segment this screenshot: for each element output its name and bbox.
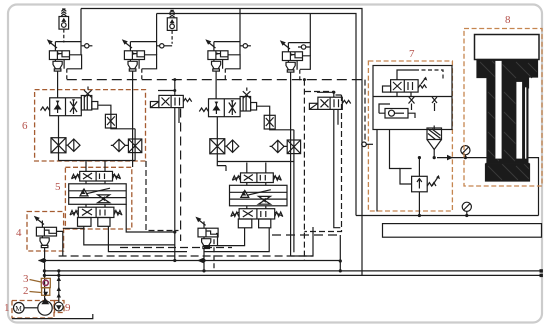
pilot drain dashed below valve1 <box>180 109 182 242</box>
compensator <box>385 109 408 119</box>
group5 port right L <box>108 229 187 252</box>
dashed drop to group7 <box>364 80 366 142</box>
aux pump line up <box>58 271 60 302</box>
mid valve right port to ladder <box>216 234 218 246</box>
svg-text:6: 6 <box>22 120 28 132</box>
mid pilot valve <box>195 217 218 249</box>
riser asm4 <box>309 14 311 56</box>
aux pump 9 dashed box <box>55 301 65 313</box>
return line to tank right <box>356 215 539 217</box>
white slots <box>495 61 502 160</box>
top bus 2 <box>157 14 356 216</box>
group4 right loop wire <box>57 228 84 255</box>
asm3 drop <box>215 71 217 99</box>
motor M <box>13 303 24 314</box>
top pilot valve 2 <box>167 10 177 44</box>
svg-text:4: 4 <box>16 227 22 239</box>
bottom bus upper <box>44 270 541 272</box>
group7 solid box <box>373 66 452 130</box>
group7 left port <box>366 143 373 145</box>
component 3 <box>41 278 50 287</box>
group7 drain verticals <box>377 130 400 212</box>
manifold group 6 <box>41 87 142 161</box>
drain line y261 with arrows <box>39 260 341 262</box>
bus terminators <box>540 269 543 272</box>
riser asm1 <box>80 9 82 55</box>
valve2 riser dashes <box>305 91 334 93</box>
svg-text:8: 8 <box>505 14 511 26</box>
dashed drain L left <box>146 161 179 231</box>
pilot relief asm2 <box>122 39 145 79</box>
pilot relief asm3 <box>205 39 228 79</box>
twin X-box drop <box>293 162 295 253</box>
arrow on cylinder line <box>447 155 453 161</box>
group4 pilot valve <box>34 216 57 248</box>
pilot dashed bus <box>67 79 365 81</box>
twin stack ports <box>204 231 245 246</box>
asm1 loop and port <box>55 42 92 69</box>
valve1 riser to pilot bus <box>174 80 176 91</box>
group7 3/2 valve <box>383 77 428 93</box>
asm1 drop to manifold <box>57 71 59 98</box>
4/2 valve 2 <box>309 91 350 125</box>
asm2 test port <box>157 45 160 47</box>
svg-text:9: 9 <box>65 302 71 314</box>
cylinder rod side line <box>437 158 539 216</box>
cylinder black body <box>477 60 538 182</box>
pilot relief asm1 <box>47 39 70 79</box>
group7 inner wires <box>373 70 452 97</box>
component 2 <box>42 288 50 296</box>
X glyph a <box>409 97 415 111</box>
cylinder cap <box>475 35 540 60</box>
group 5 dashed box <box>65 167 131 229</box>
base line under pump <box>12 314 93 319</box>
asm2 drop <box>132 71 134 167</box>
gauge 1 <box>461 146 470 155</box>
stack twin <box>230 163 288 231</box>
group 7 dashed box <box>368 61 452 211</box>
svg-text:7: 7 <box>409 48 415 60</box>
mid pilot valve drop <box>203 249 205 271</box>
dashed bottom long <box>59 255 313 257</box>
group4 line down to pump <box>44 247 46 301</box>
svg-text:1: 1 <box>4 302 10 314</box>
svg-text:2: 2 <box>23 285 29 297</box>
svg-text:3: 3 <box>23 273 29 285</box>
svg-text:5: 5 <box>55 181 61 193</box>
group 4 dashed box <box>27 212 64 252</box>
valve1 ports down <box>174 108 176 261</box>
group 6 dashed box <box>35 90 146 161</box>
asm2 loop <box>130 42 156 69</box>
relief valve group7 <box>400 156 440 217</box>
dashed mid-left pair <box>120 247 232 249</box>
cylinder outline accents <box>477 60 538 182</box>
pump group dashed box <box>12 301 54 319</box>
mid valve pilot drain dashes <box>213 239 215 269</box>
shaft <box>24 307 38 309</box>
asm3 loop and port <box>214 42 251 69</box>
junction dots bottom <box>43 269 46 272</box>
filter <box>427 126 442 150</box>
stack group5 <box>69 161 127 229</box>
gauge 2 <box>462 202 471 211</box>
bottom bus lower <box>44 274 541 276</box>
4/2 valve 1 <box>150 89 191 123</box>
aux pump 9 <box>54 302 63 311</box>
filter to line <box>433 150 435 158</box>
riser asm3 <box>239 9 241 55</box>
pump circle <box>38 301 52 315</box>
group5 mid-block right port wire <box>126 204 175 232</box>
group 8 dashed box <box>464 29 542 187</box>
asm4 drop long <box>291 72 313 256</box>
tank box <box>383 224 542 238</box>
asm4 test port <box>301 45 305 49</box>
group5 port left down <box>84 229 175 245</box>
pilot relief asm4 <box>280 40 303 80</box>
dashed drop asm4 long <box>303 80 305 261</box>
dashed vertical right of stacks <box>304 95 341 232</box>
manifold twin <box>199 88 300 162</box>
twin check drops <box>217 162 226 172</box>
svg-text:M: M <box>15 304 22 313</box>
riser asm2 <box>156 14 158 55</box>
top pilot valve 1 <box>59 9 69 43</box>
valve2 port down <box>334 109 341 227</box>
asm4 loop <box>288 43 310 70</box>
X glyph b <box>432 97 437 112</box>
top bus 1 <box>81 9 362 276</box>
